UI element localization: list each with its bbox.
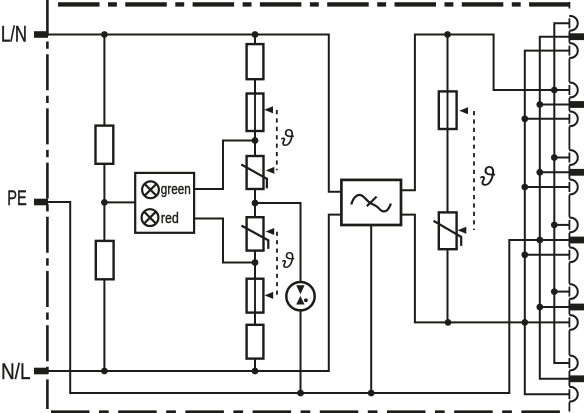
node F1-V1 [252, 137, 259, 144]
arrow into V3 [458, 227, 467, 234]
bus middle (black terminals) [540, 37, 570, 379]
node L/N-right column [444, 31, 451, 38]
thermal dashed link F3-V3 [473, 111, 475, 230]
resistor R4 middle bottom [247, 325, 264, 359]
node bus-mid E [536, 304, 543, 311]
node LED-PE rail [297, 390, 304, 397]
node left column N/L [101, 368, 108, 375]
node middle column N/L [252, 368, 259, 375]
wire transformer bottom to PE rail [370, 225, 372, 393]
lamp green symbol [142, 181, 159, 198]
wire LED bottom [300, 310, 302, 393]
terminal N/L [34, 368, 48, 375]
contact arc E1 [569, 284, 578, 299]
contact arc B2 [569, 111, 578, 126]
border top (dash-dot) [58, 2, 570, 6]
contact arc A1 [569, 16, 578, 31]
black terminal E [570, 304, 584, 311]
contact arc D2 [569, 247, 578, 262]
thermal dashed link V2-F2 [276, 232, 278, 296]
wire lamp box tap [104, 201, 135, 203]
contact arcs (female plug contacts) [569, 16, 578, 402]
border left (dash-dot) [46, 0, 49, 409]
varistor V3 [434, 212, 462, 249]
wire LED branch [255, 203, 301, 282]
wire cluster-B black [540, 104, 570, 106]
wire cluster-C lower contact [525, 186, 569, 188]
wire transformer right-bottom to cluster-E lower contact [401, 215, 569, 323]
node bus-mid C [536, 169, 543, 176]
svg-text:ϑ: ϑ [282, 248, 295, 273]
contact arc F1 [569, 356, 578, 371]
border bottom (dash-dot) [51, 410, 570, 413]
svg-text:green: green [161, 182, 191, 198]
node bus-right C [551, 154, 558, 161]
contact arc E2 [569, 315, 578, 330]
wire red lamp to middle column [194, 219, 255, 263]
node bus-left B [521, 115, 528, 122]
arrow into F3 [459, 107, 468, 114]
node lamp tap [101, 199, 108, 206]
node bus-left D [521, 251, 528, 258]
svg-text:ϑ: ϑ [480, 162, 496, 192]
node V2-F2 [252, 259, 259, 266]
wire cluster-B lower contact [525, 118, 569, 120]
fuse F1 (thermal disconnect) [247, 94, 264, 132]
indicator lamp box [135, 173, 194, 233]
black terminal C [570, 169, 584, 176]
lamp red symbol [142, 209, 159, 226]
wire right column (fuse/varistor branch) [447, 35, 449, 323]
arrow into V1 [266, 167, 275, 174]
node bus-left E [521, 319, 528, 326]
terminal L/N [34, 31, 48, 38]
node V3 bottom [445, 319, 452, 326]
filter box U1 [341, 180, 401, 225]
fuse F2 (thermal disconnect) [247, 279, 264, 313]
node L/N-left column [101, 31, 108, 38]
node V1-V2 [252, 200, 259, 207]
node bus-right D [551, 222, 558, 229]
wire cluster-C black [540, 171, 570, 173]
contact arc A2 [569, 43, 578, 58]
svg-text:N/L: N/L [1, 359, 31, 384]
contact arc B1 [569, 83, 578, 98]
wire N/L rail to transformer left-bottom [47, 215, 341, 371]
border bottom right stub [568, 402, 570, 411]
wire cluster-D lower contact [525, 254, 569, 256]
bus right (upper contacts) [554, 23, 569, 363]
bus left (lower contacts) [525, 51, 569, 395]
filter slash [367, 197, 377, 207]
wire green lamp to middle column [194, 141, 255, 190]
contact arc D1 [569, 218, 578, 233]
black terminal A [570, 33, 584, 40]
wire PE rail to cluster-D black terminal [47, 202, 570, 393]
black terminal B [570, 101, 584, 108]
wire cluster-D upper contact [554, 224, 569, 226]
wire middle column [254, 35, 256, 372]
wire transformer right-top to cluster-B upper contact [401, 35, 569, 191]
arrow into F2 [265, 292, 274, 299]
wire left column [103, 35, 105, 372]
black terminal D [570, 237, 584, 244]
svg-text:red: red [161, 211, 179, 227]
node bus-right B [551, 87, 558, 94]
terminal PE [34, 199, 48, 206]
wire cluster-E black [540, 306, 570, 308]
plug-in boundary line segments [568, 18, 570, 399]
black terminal F [570, 375, 584, 382]
node bus-right E [551, 288, 558, 295]
border top right stub [568, 2, 570, 9]
wire L/N rail to transformer left-top [47, 35, 341, 192]
varistor V2 [241, 217, 268, 250]
contact arc C2 [569, 180, 578, 195]
node L/N-middle column [252, 31, 259, 38]
filter sine symbol [351, 195, 391, 211]
node bus-left C [521, 184, 528, 191]
wire cluster-E upper contact [554, 291, 569, 293]
node transformer-PE rail [368, 390, 375, 397]
node bus-mid B [536, 101, 543, 108]
contact arc F2 [569, 387, 578, 402]
arrow into F1 [264, 106, 273, 113]
LED / spark gap D1 [286, 282, 314, 310]
fuse F3 right column [439, 91, 457, 129]
svg-text:L/N: L/N [1, 21, 27, 46]
resistor R1 middle top [247, 44, 264, 79]
wire cluster-C upper contact [554, 157, 569, 159]
svg-text:PE: PE [7, 186, 27, 210]
thermal dashed link F1-V1 [276, 110, 278, 170]
node bus-mid D [536, 237, 543, 244]
varistor V1 [241, 156, 267, 189]
resistor left lower [96, 241, 114, 279]
svg-text:ϑ: ϑ [281, 125, 295, 151]
arrow into V2 [266, 228, 275, 235]
contact arc C1 [569, 150, 578, 165]
resistor left upper [96, 126, 114, 164]
